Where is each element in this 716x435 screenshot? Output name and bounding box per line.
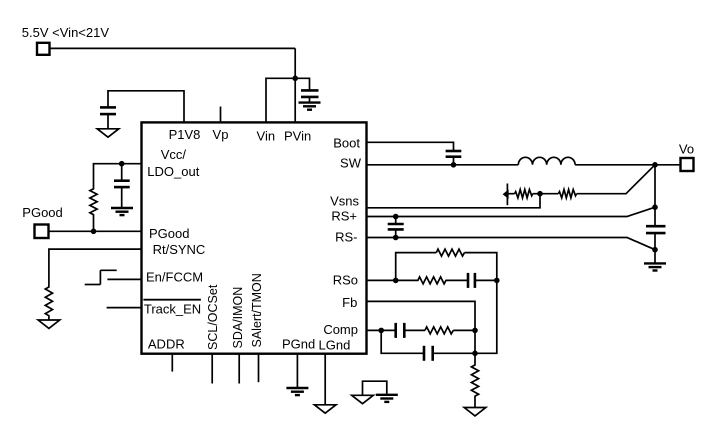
wire Boot	[367, 142, 454, 151]
resistor R_PGood pull-up	[90, 187, 97, 231]
capacitor C_P1V8	[100, 107, 116, 128]
svg-text:LDO_out: LDO_out	[147, 164, 199, 179]
wire B down to Fb node	[475, 280, 497, 353]
wire comp upper right	[453, 329, 475, 331]
wire Vo down	[654, 165, 656, 226]
resistor R_RSo_mid	[396, 277, 468, 284]
node out cap top	[652, 204, 658, 210]
ground triangle (Fb resistor)	[464, 408, 486, 416]
svg-text:Boot: Boot	[333, 135, 360, 150]
wire Rt/SYNC	[49, 249, 142, 285]
node Comp junction	[378, 328, 384, 334]
wire PGood	[49, 230, 142, 232]
PGood terminal pad	[35, 225, 49, 239]
svg-text:RS-: RS-	[335, 230, 357, 245]
wire Track_EN	[107, 307, 142, 309]
capacitor C_Pvin	[301, 90, 319, 102]
wire comp lower right	[433, 352, 475, 354]
svg-text:SAlert/TMON: SAlert/TMON	[250, 273, 264, 347]
capacitor C_Boot	[446, 151, 462, 165]
svg-text:Fb: Fb	[342, 295, 357, 310]
capacitor C_RS	[388, 217, 404, 238]
ground triangle (LGnd)	[314, 405, 336, 413]
wire RSo top branch	[396, 253, 437, 281]
svg-text:RSo: RSo	[333, 272, 358, 287]
capacitor C_RSo series	[468, 273, 475, 288]
wire Fb	[367, 301, 476, 353]
wire arrow to R1	[507, 193, 514, 195]
wire RSo top branch right	[465, 253, 497, 281]
wire R2 to Vo node	[577, 165, 655, 194]
svg-text:LGnd: LGnd	[319, 338, 351, 353]
ground signal (PGnd)	[286, 388, 308, 395]
wire Comp	[367, 329, 396, 331]
capacitor C_comp_upper	[396, 323, 405, 338]
wire En/FCCM	[107, 278, 141, 280]
ground triangle (Rt resistor)	[38, 320, 60, 328]
wire Vsns	[367, 194, 541, 208]
svg-text:SCL/OCSet: SCL/OCSet	[206, 284, 220, 350]
Vo terminal pad	[681, 158, 694, 171]
svg-text:PVin: PVin	[284, 129, 311, 144]
node sense divider	[537, 191, 543, 197]
svg-text:Vo: Vo	[679, 142, 694, 157]
svg-text:SDA/IMON: SDA/IMON	[231, 287, 245, 349]
wire RS-	[367, 238, 656, 250]
node PVin junction	[292, 76, 298, 82]
resistor R_Fb_gnd	[471, 353, 478, 407]
wire Vp stub	[220, 107, 222, 123]
capacitor C_comp_lower	[424, 346, 433, 361]
wire P1V8 to cap	[108, 91, 184, 123]
ground signal (input cap)	[299, 103, 321, 110]
svg-text:PGood: PGood	[22, 205, 62, 220]
wire SAlert/TMON stub	[258, 354, 260, 383]
capacitor C_out	[646, 226, 666, 263]
ground tie wire	[363, 381, 387, 395]
svg-text:Track_EN: Track_EN	[144, 302, 201, 317]
node RS+ cap	[393, 214, 399, 220]
step waveform symbol	[85, 270, 117, 284]
resistor R_RSo_top	[436, 249, 464, 256]
IC U1 outline	[142, 122, 367, 353]
ground signal (output)	[644, 263, 666, 270]
resistor R_comp	[425, 327, 453, 334]
ground triangle (P1V8 cap)	[97, 129, 119, 137]
ground triangle (tie left)	[352, 395, 374, 403]
ground signal (Vcc cap)	[111, 208, 133, 215]
wire C_RSo to B	[475, 279, 497, 281]
resistor R_Rt	[45, 285, 52, 320]
wire LGnd stub	[324, 354, 326, 405]
svg-text:Vp: Vp	[213, 127, 229, 142]
wire comp upper	[404, 329, 425, 331]
node SW boot junction	[451, 162, 457, 168]
pin label Track_EN with overbar	[143, 300, 201, 317]
svg-text:Comp: Comp	[323, 322, 358, 337]
wire SDA/IMON stub	[238, 354, 240, 384]
resistor R1 sense	[515, 190, 533, 198]
wire SCL/OCSet stub	[211, 354, 213, 384]
svg-text:5.5V <Vin<21V: 5.5V <Vin<21V	[22, 25, 110, 40]
svg-text:Vin: Vin	[257, 129, 276, 144]
wire SW to Vo	[575, 164, 680, 166]
resistor R2 sense	[558, 190, 576, 198]
svg-text:RS+: RS+	[331, 208, 357, 223]
node Vcc cap junction	[119, 161, 125, 167]
wire Vin branch	[266, 78, 295, 122]
capacitor C_Vcc	[114, 164, 130, 208]
input terminal pad	[37, 43, 50, 55]
svg-text:Vcc/: Vcc/	[161, 147, 187, 162]
wire input cap branch	[295, 78, 309, 90]
wire input horizontal	[50, 47, 295, 49]
wire RS+	[367, 207, 656, 216]
sense arrow	[503, 184, 509, 206]
wire Vcc/LDO_out	[94, 164, 142, 187]
ground signal (tie right)	[376, 395, 398, 402]
svg-text:ADDR: ADDR	[148, 337, 185, 352]
node Fb bottom	[472, 351, 478, 357]
node out cap bottom	[652, 247, 658, 253]
svg-text:En/FCCM: En/FCCM	[146, 269, 203, 284]
node RSo A	[393, 278, 399, 284]
wire PGnd stub	[296, 354, 298, 388]
wire node to R2	[533, 193, 559, 195]
wire SW	[367, 164, 519, 166]
wire ADDR stub	[171, 354, 173, 372]
node Vo junction	[652, 162, 658, 168]
svg-text:Rt/SYNC: Rt/SYNC	[153, 242, 206, 257]
wire comp lower	[381, 330, 424, 353]
node RSo B	[494, 278, 500, 284]
node PGood junction	[91, 229, 97, 235]
wire RSo	[367, 279, 396, 281]
wire input vertical to PVin	[294, 48, 296, 122]
node Fb comp upper	[472, 328, 478, 334]
svg-text:PGood: PGood	[149, 226, 189, 241]
svg-text:SW: SW	[340, 156, 362, 171]
svg-text:PGnd: PGnd	[282, 336, 315, 351]
inductor L1	[518, 157, 575, 165]
svg-text:P1V8: P1V8	[169, 127, 201, 142]
svg-text:Vsns: Vsns	[330, 194, 359, 209]
node RS- cap	[393, 235, 399, 241]
